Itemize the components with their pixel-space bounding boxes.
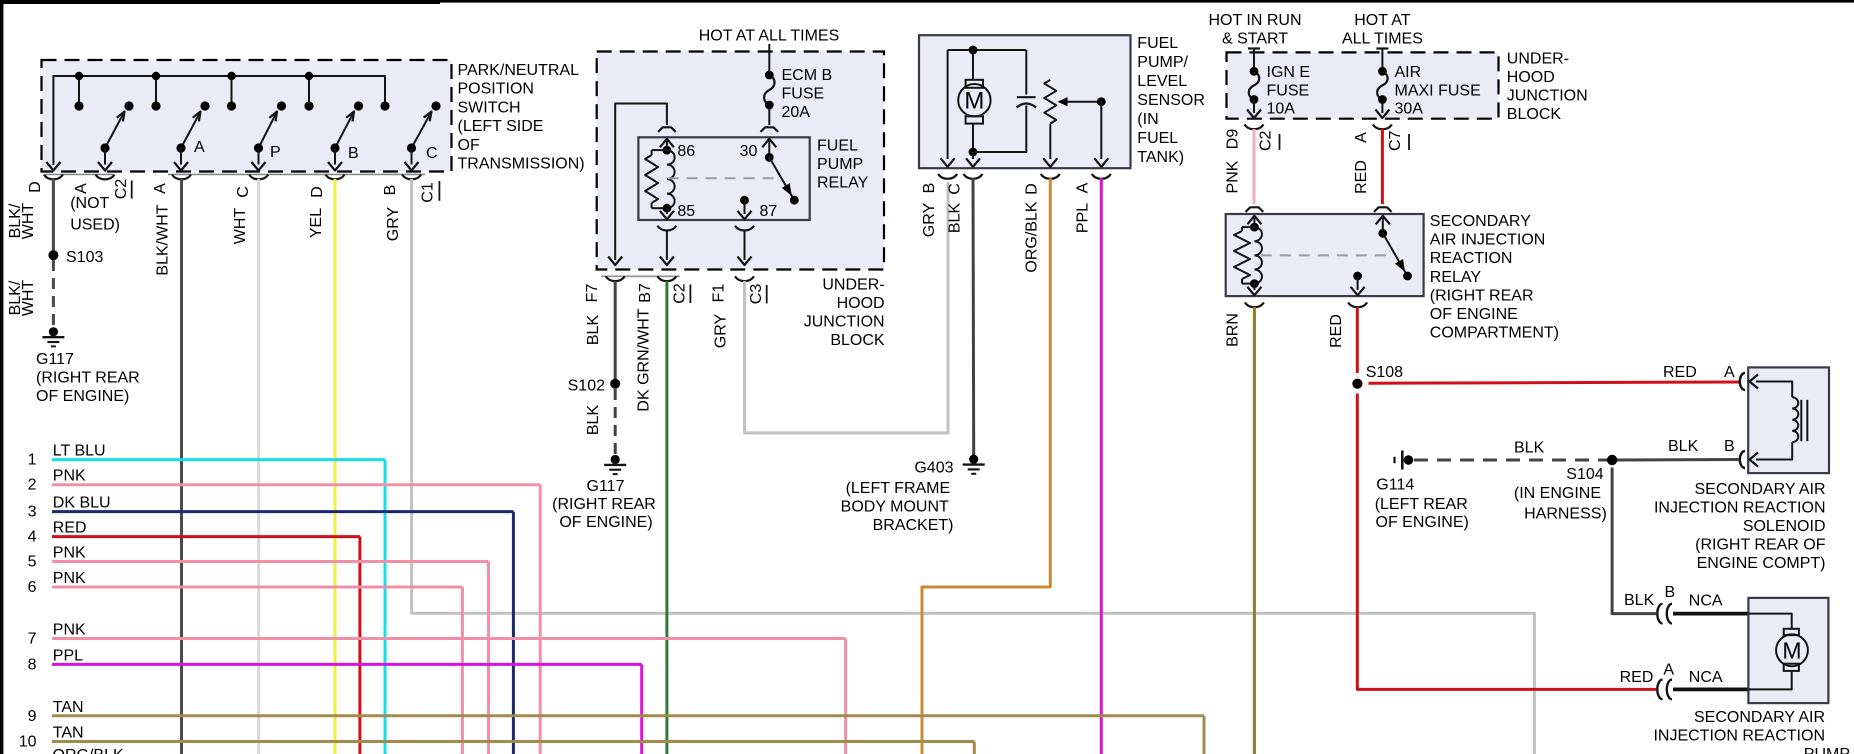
- svg-text:A: A: [1353, 132, 1370, 143]
- svg-text:PNK: PNK: [53, 622, 86, 639]
- wire BLK S104 to solenoid: [1617, 458, 1739, 462]
- underhood junction block box (fuel pump relay): [597, 52, 884, 270]
- PNP switch blade 5: [412, 112, 432, 149]
- svg-text:PUMP/: PUMP/: [1137, 54, 1188, 71]
- svg-text:(IN ENGINE: (IN ENGINE: [1514, 485, 1601, 502]
- svg-text:BRACKET): BRACKET): [873, 517, 954, 534]
- sensor connector bracket x=973: [964, 174, 983, 179]
- svg-text:C7: C7: [1387, 130, 1404, 151]
- PNP switch pivot lead down 1: [104, 148, 106, 165]
- svg-text:PUMP: PUMP: [817, 156, 863, 173]
- PNP switch pivot dot 4: [330, 143, 339, 152]
- svg-text:USED): USED): [70, 217, 120, 234]
- svg-text:3: 3: [28, 504, 37, 521]
- air relay coil: [1242, 226, 1254, 228]
- relay pin 30 dot: [765, 153, 774, 162]
- svg-text:2: 2: [28, 477, 37, 494]
- capacitor lead top: [1025, 50, 1027, 95]
- connector bracket below air relay coil: [1245, 302, 1264, 307]
- svg-text:D9: D9: [1225, 129, 1242, 150]
- PNP switch pivot lead down 3: [258, 148, 260, 165]
- PNP throw contact dots: [124, 101, 133, 110]
- svg-text:(RIGHT REAR: (RIGHT REAR: [552, 496, 656, 513]
- connector bracket below AIR MAXI fuse: [1373, 124, 1392, 129]
- solenoid coil: [1792, 397, 1798, 442]
- wire AIR MAXI fuse to JB edge: [1381, 100, 1383, 114]
- svg-text:& START: & START: [1222, 31, 1288, 48]
- svg-text:10: 10: [19, 734, 37, 751]
- svg-text:TAN: TAN: [53, 725, 84, 742]
- svg-text:OF ENGINE): OF ENGINE): [559, 514, 652, 531]
- svg-text:ORG/BLK: ORG/BLK: [1024, 201, 1041, 272]
- wire BLK dashed to G117 right: [614, 389, 617, 455]
- svg-text:RELAY: RELAY: [817, 175, 869, 192]
- sender wiper dot: [1097, 97, 1106, 106]
- connector half above pin 86: [658, 127, 676, 132]
- wire PPL A: [1100, 178, 1103, 754]
- svg-text:30A: 30A: [1395, 101, 1424, 118]
- svg-text:NCA: NCA: [1689, 593, 1723, 610]
- svg-text:C: C: [235, 186, 252, 198]
- JB bottom connector rail F7-B7: [601, 275, 680, 277]
- PNP connector bracket pin D: [44, 175, 63, 180]
- svg-text:F7: F7: [584, 284, 601, 303]
- connector bracket below IGN fuse: [1245, 124, 1264, 129]
- svg-text:PARK/NEUTRAL: PARK/NEUTRAL: [458, 62, 580, 79]
- air relay output dot: [1353, 272, 1362, 281]
- PNP switch pivot dot 2: [176, 143, 185, 152]
- svg-text:C3: C3: [748, 284, 765, 305]
- splice S103: [48, 250, 58, 260]
- svg-text:YEL: YEL: [308, 208, 325, 238]
- svg-text:OF ENGINE): OF ENGINE): [36, 388, 129, 405]
- svg-text:BLK: BLK: [1514, 439, 1545, 456]
- wire WHT pin C: [257, 179, 260, 754]
- svg-text:G117: G117: [587, 478, 625, 495]
- svg-text:(RIGHT REAR: (RIGHT REAR: [36, 370, 140, 387]
- wire relay 85 to JB edge: [666, 230, 668, 260]
- svg-text:BLK/WHT: BLK/WHT: [155, 204, 172, 275]
- svg-text:LT BLU: LT BLU: [53, 443, 106, 460]
- splice S104: [1607, 455, 1617, 465]
- splice S102: [610, 379, 620, 389]
- wire NCA black to pump B: [1673, 612, 1749, 616]
- svg-text:BLK: BLK: [585, 405, 602, 436]
- svg-text:C: C: [426, 145, 438, 162]
- wire relay 87 to JB edge: [744, 230, 746, 260]
- svg-text:7: 7: [28, 631, 37, 648]
- svg-text:G403: G403: [914, 460, 953, 477]
- motor pin C arrow: [972, 152, 974, 159]
- svg-text:G114: G114: [1376, 477, 1414, 494]
- svg-text:87: 87: [760, 203, 778, 220]
- svg-text:BLOCK: BLOCK: [830, 332, 885, 349]
- svg-text:BLK: BLK: [1668, 438, 1699, 455]
- connector at pump pin A: [1657, 680, 1662, 700]
- relay pin 85 dot: [663, 204, 672, 213]
- connector bracket below air relay output: [1348, 302, 1367, 307]
- PNP bus junction dots: [75, 72, 83, 80]
- svg-text:30: 30: [740, 143, 758, 160]
- svg-text:1: 1: [28, 452, 37, 469]
- svg-text:MAXI FUSE: MAXI FUSE: [1395, 83, 1481, 100]
- svg-text:C1: C1: [420, 182, 437, 203]
- svg-text:POSITION: POSITION: [458, 81, 534, 98]
- svg-text:A: A: [194, 139, 205, 156]
- svg-text:OF ENGINE: OF ENGINE: [1430, 306, 1518, 323]
- wire YEL pin D: [334, 179, 337, 754]
- page frame top border: [0, 0, 1854, 3]
- air relay coil pin arrow: [1253, 218, 1255, 227]
- svg-text:(LEFT SIDE: (LEFT SIDE: [458, 118, 544, 135]
- circuit 3 wire DK BLU: [52, 510, 513, 513]
- circuit 5 wire PNK: [52, 560, 489, 563]
- wire PNK D9: [1253, 129, 1256, 204]
- connector half above air relay switch pin: [1374, 207, 1392, 212]
- svg-text:A: A: [1724, 364, 1735, 381]
- wire hot feed to IGN E fuse: [1253, 48, 1255, 71]
- svg-text:ALL TIMES: ALL TIMES: [1342, 31, 1423, 48]
- PNP switch pivot lead down 2: [180, 148, 182, 165]
- svg-text:HOT IN RUN: HOT IN RUN: [1208, 12, 1301, 29]
- underhood junction block box (fuses): [1227, 52, 1499, 118]
- svg-text:B: B: [348, 145, 359, 162]
- secondary air injection reaction relay box: [1226, 214, 1424, 296]
- svg-text:B: B: [921, 183, 938, 194]
- svg-text:ENGINE COMPT): ENGINE COMPT): [1697, 555, 1826, 572]
- PNP switch pivot lead down 4: [334, 148, 336, 165]
- svg-text:PPL: PPL: [53, 647, 83, 664]
- svg-text:GRY: GRY: [385, 206, 402, 241]
- PNP connector C1 rail: [168, 173, 425, 175]
- svg-text:RELAY: RELAY: [1430, 269, 1482, 286]
- svg-text:86: 86: [677, 143, 695, 160]
- PNP connector C2 rail: [45, 173, 113, 175]
- svg-text:RED: RED: [1353, 160, 1370, 194]
- svg-text:FUSE: FUSE: [782, 86, 825, 103]
- svg-text:PPL: PPL: [1075, 203, 1092, 233]
- svg-text:B: B: [382, 185, 399, 196]
- svg-text:M: M: [1782, 638, 1801, 664]
- svg-text:8: 8: [28, 656, 37, 673]
- wire RED A: [1381, 129, 1384, 204]
- svg-text:B: B: [1665, 584, 1676, 601]
- svg-text:DK BLU: DK BLU: [53, 495, 111, 512]
- svg-text:A: A: [73, 183, 90, 194]
- relay blade end dot: [790, 196, 799, 205]
- wire junction block to relay pin 86: [615, 104, 667, 261]
- relay pin 85 arrow down: [666, 208, 668, 214]
- PNP switch blade 1: [105, 112, 125, 149]
- svg-text:D: D: [1024, 183, 1041, 195]
- svg-text:UNDER-: UNDER-: [1507, 51, 1569, 68]
- relay internal divider: [668, 177, 779, 179]
- fuel pump/level sensor box: [919, 35, 1131, 168]
- svg-text:PNK: PNK: [53, 545, 86, 562]
- connector at pump pin B: [1657, 604, 1662, 624]
- PNP switch pivot dot 1: [100, 143, 109, 152]
- PNP connector bracket pin A2: [172, 175, 191, 180]
- svg-text:4: 4: [28, 529, 37, 546]
- svg-text:85: 85: [677, 203, 695, 220]
- PNP switch bus wire: [53, 76, 385, 165]
- pump internal wiring: [1748, 614, 1791, 629]
- svg-text:S103: S103: [66, 249, 103, 266]
- PNP switch blade 2: [181, 112, 201, 149]
- wire BLK/WHT dashed to G117: [52, 260, 55, 327]
- air relay blade end dot: [1403, 272, 1412, 281]
- PNP bus stub 1: [78, 76, 80, 106]
- ground G117 left: [49, 327, 58, 336]
- svg-text:AIR: AIR: [1395, 64, 1422, 81]
- wire from hot feed to ECM B fuse: [768, 44, 770, 75]
- svg-text:HOOD: HOOD: [1507, 69, 1555, 86]
- wire RED air relay to S108: [1356, 307, 1359, 373]
- svg-text:UNDER-: UNDER-: [822, 277, 884, 294]
- svg-text:WHT: WHT: [20, 280, 37, 317]
- pump motor M: [1784, 629, 1799, 635]
- fuel level sender resistor: [1044, 80, 1056, 124]
- svg-text:FUEL: FUEL: [1137, 130, 1178, 147]
- svg-text:GRY: GRY: [713, 313, 730, 348]
- relay switch blade: [769, 157, 794, 200]
- svg-text:HOOD: HOOD: [837, 295, 885, 312]
- solenoid internal wiring: [1756, 382, 1792, 398]
- svg-text:D: D: [309, 186, 326, 198]
- sensor bottom junction dot: [969, 148, 978, 157]
- svg-text:FUEL: FUEL: [817, 138, 858, 155]
- connector half below relay pin 87: [735, 226, 754, 231]
- air relay coil top dot: [1250, 223, 1259, 232]
- wire BLK/WHT pin A: [180, 179, 183, 754]
- ground G117 right: [611, 455, 620, 464]
- connector half above air relay coil pin: [1246, 207, 1264, 212]
- svg-text:P: P: [270, 144, 281, 161]
- fuse IGN E 10A: [1249, 71, 1260, 99]
- fuse ECM B 20A: [764, 75, 775, 105]
- wire RED S108 to pump: [1357, 394, 1656, 690]
- svg-text:20A: 20A: [782, 104, 811, 121]
- svg-text:C: C: [947, 183, 964, 195]
- fuel pump relay box: [638, 137, 809, 220]
- wire hot feed to AIR MAXI fuse: [1381, 48, 1383, 71]
- svg-text:(LEFT FRAME: (LEFT FRAME: [846, 480, 951, 497]
- PNP switch pivot lead down 5: [411, 148, 413, 165]
- svg-text:(NOT: (NOT: [70, 195, 109, 212]
- air relay switch blade: [1383, 233, 1408, 276]
- wire DK GRN/WHT B7: [665, 281, 668, 754]
- PNP switch blade 4: [335, 112, 354, 149]
- secondary air injection reaction solenoid box: [1748, 367, 1829, 473]
- wire fuse to relay pin 30: [768, 105, 770, 125]
- svg-text:D: D: [27, 181, 44, 193]
- wire NCA black to pump A: [1673, 688, 1749, 692]
- park/neutral position switch box: [42, 60, 452, 172]
- svg-text:SENSOR: SENSOR: [1137, 92, 1205, 109]
- motor M fuel pump lead: [972, 50, 974, 80]
- svg-text:TRANSMISSION): TRANSMISSION): [458, 156, 585, 173]
- sender wiper arrow: [1063, 101, 1101, 103]
- svg-text:FUSE: FUSE: [1267, 83, 1310, 100]
- svg-text:BODY MOUNT: BODY MOUNT: [841, 499, 949, 516]
- air relay switch pin arrow: [1382, 218, 1384, 233]
- svg-text:PNK: PNK: [53, 570, 86, 587]
- svg-text:JUNCTION: JUNCTION: [1507, 88, 1588, 105]
- svg-text:(IN: (IN: [1137, 111, 1158, 128]
- svg-text:SECONDARY: SECONDARY: [1430, 213, 1531, 230]
- svg-text:(RIGHT REAR: (RIGHT REAR: [1430, 287, 1534, 304]
- secondary air injection reaction pump box: [1748, 598, 1828, 703]
- svg-text:DK GRN/WHT: DK GRN/WHT: [635, 308, 652, 411]
- PNP pin D lead arrow: [46, 162, 60, 171]
- PNP connector bracket pin D2: [326, 175, 345, 180]
- svg-text:G117: G117: [36, 351, 74, 368]
- circuit 8 wire PPL: [52, 663, 642, 666]
- JB bottom connector bracket x=666.9: [657, 276, 676, 281]
- sender lead down: [1049, 124, 1051, 159]
- circuit 2 wire PNK: [52, 483, 540, 486]
- svg-text:RED: RED: [1620, 669, 1654, 686]
- capacitor lead bottom: [973, 106, 1026, 153]
- svg-text:(LEFT REAR: (LEFT REAR: [1375, 496, 1468, 513]
- PNP bus stub 2: [155, 76, 157, 106]
- svg-text:SECONDARY AIR: SECONDARY AIR: [1694, 709, 1825, 726]
- svg-text:SWITCH: SWITCH: [458, 99, 521, 116]
- connector at solenoid pin A: [1740, 373, 1745, 390]
- svg-text:BLK: BLK: [585, 315, 602, 346]
- wire BLK S104 to pump: [1612, 468, 1656, 614]
- circuit 9 wire TAN: [52, 714, 1204, 717]
- sensor internal top wire: [948, 49, 1027, 51]
- svg-text:RED: RED: [1328, 314, 1345, 348]
- svg-text:OF ENGINE): OF ENGINE): [1376, 514, 1469, 531]
- relay pin 87 arrow down: [744, 200, 746, 214]
- svg-text:LEVEL: LEVEL: [1137, 73, 1187, 90]
- PNP connector bracket pin A: [96, 175, 115, 180]
- svg-text:5: 5: [28, 554, 37, 571]
- svg-text:OF: OF: [458, 137, 480, 154]
- relay pin 30 arrow: [768, 141, 770, 157]
- wire BLK C to G403: [972, 178, 976, 455]
- svg-text:BLK: BLK: [947, 203, 964, 234]
- svg-text:INJECTION REACTION: INJECTION REACTION: [1654, 500, 1826, 517]
- PNP switch pivot dot 5: [407, 143, 416, 152]
- svg-text:PNK: PNK: [53, 468, 86, 485]
- svg-text:NCA: NCA: [1689, 669, 1723, 686]
- svg-text:GRY: GRY: [921, 202, 938, 237]
- motor M bottom lead: [972, 124, 974, 152]
- circuit 4 wire RED: [52, 535, 360, 538]
- relay coil (fuel pump relay): [652, 149, 667, 151]
- PNP bus stub 4: [308, 76, 310, 106]
- svg-text:BRN: BRN: [1225, 313, 1242, 347]
- svg-text:COMPARTMENT): COMPARTMENT): [1430, 325, 1559, 342]
- PNP bus stub 3: [231, 76, 233, 106]
- svg-text:FUEL: FUEL: [1137, 35, 1178, 52]
- air relay coil bottom arrow: [1253, 284, 1255, 290]
- fuse AIR MAXI 30A: [1377, 71, 1388, 99]
- svg-text:BLOCK: BLOCK: [1507, 106, 1562, 123]
- PNP switch pivot dot 3: [254, 143, 263, 152]
- svg-text:M: M: [964, 88, 984, 115]
- svg-text:ORG/BLK: ORG/BLK: [53, 747, 124, 754]
- svg-text:F1: F1: [711, 284, 728, 303]
- svg-text:WHT: WHT: [232, 208, 249, 245]
- wire BLK F7 to S102: [614, 281, 617, 384]
- svg-text:WHT: WHT: [20, 203, 37, 240]
- wire BLK dashed G114 to S104: [1414, 459, 1612, 462]
- sensor top junction dot: [969, 46, 978, 55]
- sensor connector bracket x=1050.3: [1041, 174, 1060, 179]
- svg-text:INJECTION REACTION: INJECTION REACTION: [1653, 728, 1825, 745]
- svg-text:C2: C2: [113, 179, 130, 200]
- wire RED S108 to solenoid: [1369, 382, 1740, 383]
- circuit 1 wire LT BLU: [52, 458, 385, 461]
- svg-text:SOLENOID: SOLENOID: [1743, 518, 1826, 535]
- relay pin 87 dot: [740, 196, 749, 205]
- svg-text:A: A: [1075, 182, 1092, 193]
- connector half above pin 30: [761, 127, 779, 132]
- wire GRY F1 to fuel sensor: [745, 182, 949, 433]
- capacitor (sensor): [1017, 96, 1036, 98]
- svg-text:S102: S102: [568, 378, 605, 395]
- svg-text:BLK: BLK: [1624, 592, 1655, 609]
- solenoid core bars: [1800, 400, 1802, 441]
- svg-text:ECM B: ECM B: [782, 67, 833, 84]
- svg-text:TAN: TAN: [53, 699, 84, 716]
- air relay internal divider: [1261, 254, 1392, 256]
- svg-text:RED: RED: [53, 520, 87, 537]
- sensor connector bracket x=947.6: [938, 174, 957, 179]
- circuit 7 wire PNK: [52, 637, 846, 640]
- connector at solenoid pin B: [1740, 451, 1745, 468]
- circuit 10 wire TAN: [52, 740, 974, 743]
- sensor connector bracket x=1101.3: [1092, 174, 1111, 179]
- sensor pin A lead: [1100, 102, 1102, 159]
- air relay output arrow down: [1357, 276, 1359, 290]
- ground G403: [969, 455, 978, 464]
- connector half below relay pin 85: [657, 226, 676, 231]
- svg-text:B7: B7: [637, 283, 654, 303]
- PNP switch blade 3: [259, 112, 278, 149]
- relay pin 86 dot: [663, 146, 672, 155]
- svg-text:S108: S108: [1366, 364, 1403, 381]
- ground G114: [1404, 455, 1414, 465]
- svg-text:B: B: [1724, 438, 1735, 455]
- svg-text:9: 9: [28, 708, 37, 725]
- svg-text:(RIGHT REAR OF: (RIGHT REAR OF: [1695, 537, 1826, 554]
- svg-text:REACTION: REACTION: [1430, 250, 1513, 267]
- svg-text:A: A: [1663, 662, 1674, 679]
- wire GRY pin B: [412, 179, 1535, 754]
- svg-text:HOT AT ALL TIMES: HOT AT ALL TIMES: [699, 28, 840, 45]
- relay pin 86 arrow: [666, 141, 668, 150]
- svg-text:RED: RED: [1663, 364, 1697, 381]
- air relay coil bottom dot: [1250, 279, 1259, 288]
- wire ORG/BLK D: [922, 178, 1050, 754]
- PNP fixed contact dots: [74, 101, 83, 110]
- circuit 6 wire PNK: [52, 586, 462, 589]
- motor M fuel pump: [966, 80, 983, 88]
- svg-text:A: A: [152, 183, 169, 194]
- svg-text:C2: C2: [1257, 130, 1274, 151]
- air relay switch top dot: [1378, 229, 1387, 238]
- svg-text:PNK: PNK: [1225, 160, 1242, 193]
- svg-text:10A: 10A: [1267, 101, 1296, 118]
- svg-text:PUMP: PUMP: [1804, 746, 1850, 754]
- sensor internal left lead: [947, 50, 949, 159]
- svg-text:S104: S104: [1566, 466, 1603, 483]
